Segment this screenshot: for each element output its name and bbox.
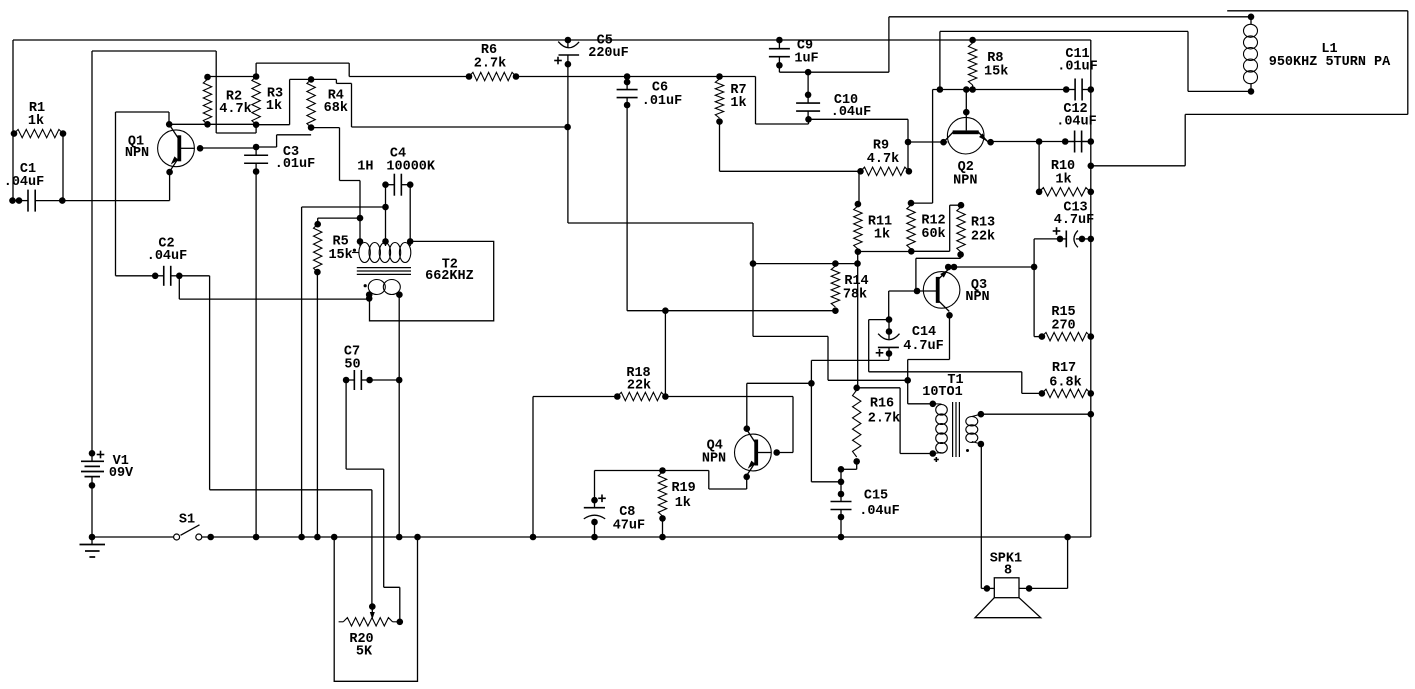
capacitor C15: [838, 491, 845, 498]
wire C6 bottom long drop to y=310.7 R14 feeder: [626, 105, 628, 311]
wire left vertical x=13 to C1/R1 left node: [12, 40, 14, 201]
wire C2 left from x=115.5 column: [116, 275, 156, 277]
wire x=115.5 Q1 collector feed / down to C2: [115, 112, 117, 276]
resistor R11: [855, 201, 862, 208]
transistor Q1 NPN: [158, 130, 195, 167]
wire R13 bottom jog down-left-down to Q3 base: [960, 255, 962, 259]
capacitor C5 electrolytic: [565, 37, 572, 44]
resistor R1: [14, 129, 63, 137]
wire R6 right to C6/R7 top rail y=76.5: [516, 76, 720, 78]
wire ground rail main y=537: [202, 536, 1091, 538]
svg-text:60k: 60k: [921, 227, 945, 242]
resistor R14: [832, 260, 839, 267]
svg-text:4.7uF: 4.7uF: [903, 339, 944, 354]
svg-text:78k: 78k: [843, 288, 867, 303]
wire R18 right to Q4 base jog: [665, 396, 793, 398]
resistor R13: [958, 202, 965, 209]
resistor R12: [908, 200, 915, 207]
resistor R18: [617, 392, 665, 400]
transistor Q2 NPN: [947, 117, 984, 154]
resistor R7: [716, 73, 723, 80]
svg-text:1k: 1k: [1055, 173, 1071, 188]
svg-text:10TO1: 10TO1: [922, 385, 963, 400]
wire riser x=939.9 up to y=31.4 L1 bottom feed: [939, 31, 941, 89]
wire speaker right up to ground rail: [1019, 587, 1068, 589]
svg-text:NPN: NPN: [965, 290, 989, 305]
wire R9 left down to R11 top: [858, 171, 860, 204]
transformer T1 primary coil: [930, 401, 937, 408]
wire R3 bottom step up to R4 top: [256, 124, 290, 126]
svg-text:4.7k: 4.7k: [219, 102, 251, 117]
wire R15 left jog up to C13 column: [1034, 336, 1042, 338]
wire Q1 emitter down to C1/R1 node: [169, 172, 171, 201]
svg-text:1k: 1k: [730, 96, 746, 111]
svg-text:.01uF: .01uF: [275, 157, 316, 172]
wire branch x=665 down to R18 right: [664, 311, 666, 397]
battery V1: [91, 452, 93, 461]
capacitor C14 electrolytic: [886, 316, 893, 323]
wire R2 top to R3 top y=76.5: [208, 76, 257, 78]
svg-text:C15: C15: [864, 489, 888, 504]
wire R16 top right jog down to T1 primary bottom: [857, 387, 900, 389]
wire R4 bottom step down to T2 primary left: [311, 127, 339, 129]
svg-text:R16: R16: [870, 397, 894, 412]
wire T1 secondary top to right bus: [981, 413, 1091, 415]
wire R12 top jog up riser: [911, 202, 933, 204]
wire Q4 emitter jog to R19 top: [746, 477, 748, 489]
capacitor C9: [776, 37, 783, 44]
wire C4 left down to T2 primary center tap: [385, 185, 387, 242]
wire Q3 collector down-jog-left to x=908 column: [949, 315, 951, 359]
transistor Q4 NPN: [735, 434, 772, 471]
wire T2 feedback box primary-right to secondary-left: [370, 241, 494, 320]
capacitor C13 electrolytic: [1057, 236, 1064, 243]
resistor R17: [1042, 389, 1091, 397]
wire ground rail left to switch: [92, 536, 174, 538]
wire C3 bottom to ground rail: [255, 172, 257, 538]
wire T2 secondary right down to ground: [398, 295, 400, 537]
wire C14 top jog left-down to R17 feeder y=371.8: [869, 319, 889, 321]
wire R10 left up to Q2 emitter row: [1038, 142, 1040, 192]
wire wiper feed y=489.8 to R20 wiper: [210, 489, 372, 491]
wire C2 right to x=209.6 down to volume wiper feed: [179, 275, 209, 277]
svg-text:.04uF: .04uF: [859, 504, 900, 519]
potentiometer R20: [339, 621, 344, 623]
svg-text:662KHZ: 662KHZ: [425, 269, 474, 284]
svg-text:S1: S1: [179, 512, 195, 527]
svg-text:.01uF: .01uF: [1057, 60, 1098, 75]
wire x=216 from y=51 down and right to R3 bottom: [215, 51, 217, 133]
wire R7 top jog to C10 bottom: [720, 76, 756, 78]
wire R5 top jog to T2 primary-left column: [317, 218, 319, 224]
svg-text:1uF: 1uF: [794, 52, 818, 67]
svg-text:C14: C14: [912, 325, 936, 340]
transformer T2 primary coil: [359, 243, 370, 263]
wire V+ branch x=92: corner (92,51) down to battery V1 plus: [92, 50, 216, 52]
wire C15 column: [840, 469, 842, 494]
svg-text:.04uF: .04uF: [831, 105, 872, 120]
transformer T1 secondary coil: [978, 411, 985, 418]
wire Q1 collector row y=124.2 to R2/R3 bottoms: [169, 123, 256, 125]
wire y=16.8 rail to L1 top: [889, 16, 1251, 18]
svg-text:5K: 5K: [356, 645, 373, 660]
resistor R9: [861, 167, 909, 175]
T2 phase mark secondary: [364, 284, 367, 287]
wire distribution y=263.6 to R14 top and R11 bottom column: [753, 263, 858, 265]
capacitor C2: [163, 266, 165, 286]
svg-text:2.7k: 2.7k: [868, 412, 900, 427]
Q3 base wire from C14 column: [889, 290, 938, 292]
svg-text:.04uF: .04uF: [147, 249, 188, 264]
wire x=907.7 column from Q3 jog down to T1 primary top: [907, 360, 909, 404]
switch S1: [174, 534, 180, 540]
wire R20 ground loop box: [334, 537, 417, 681]
capacitor C12: [1074, 131, 1076, 153]
svg-text:4.7uF: 4.7uF: [1054, 213, 1095, 228]
wire Q3 emitter row y=267 to C13/R15 column: [954, 266, 1034, 268]
svg-text:1H: 1H: [357, 160, 373, 175]
wire Q1 base to C3 top: [200, 147, 256, 149]
wire Q3 base branch down to C14 top: [888, 291, 890, 320]
wire distribution x=753 corner to y=336 then to x=828 down to Q3/T1 node: [753, 335, 828, 337]
svg-text:22k: 22k: [971, 230, 995, 245]
inductor L1: [1248, 13, 1255, 20]
wire bus out to L1 return loop: [1091, 165, 1185, 167]
svg-text:4.7k: 4.7k: [867, 152, 899, 167]
wire +V top rail y=40 from antenna corner to right bus: [13, 39, 1091, 41]
resistor R5: [314, 224, 322, 272]
resistor R8: [969, 37, 976, 44]
wire C3 top step up to R4 bottom: [256, 146, 277, 148]
svg-text:NPN: NPN: [953, 174, 977, 189]
wire C7 left down jog to R20 right: [345, 380, 347, 469]
svg-text:47uF: 47uF: [613, 519, 645, 534]
wire C5 bottom lead down to y=127 and y=223 distribution: [567, 64, 569, 223]
svg-text:R17: R17: [1052, 361, 1076, 376]
svg-text:1k: 1k: [874, 228, 890, 243]
svg-text:15k: 15k: [328, 248, 352, 263]
wire R1 right lead down to C1 node: [62, 134, 64, 201]
svg-text:8: 8: [1004, 564, 1012, 579]
capacitor C3: [244, 154, 268, 156]
capacitor C6: [624, 73, 631, 80]
wire C2 right down to T2 secondary row y=299.1: [178, 276, 180, 299]
wire V1 minus to ground node: [91, 485, 93, 537]
wire Q2 collector rail y=89.5 from R12 riser to C11: [933, 89, 1067, 91]
capacitor C10: [805, 69, 812, 76]
wire C14 bottom lead left to y=360 stub to x=811 column: [888, 354, 890, 361]
svg-text:270: 270: [1051, 319, 1075, 334]
svg-text:1k: 1k: [266, 99, 282, 114]
wire R9 row y=171.3 from R7 column: [720, 170, 861, 172]
resistor R2: [203, 79, 211, 124]
wire riser x=932.6 down to R12 top: [932, 90, 934, 204]
wire C13 left down to Q3 emitter junction and R15: [1034, 238, 1060, 240]
wire R12 bottom right to R13 drop: [911, 250, 949, 252]
capacitor C8 electrolytic: [591, 497, 598, 504]
svg-text:R13: R13: [971, 216, 995, 231]
resistor R6: [469, 72, 516, 80]
svg-text:950KHZ 5TURN PA: 950KHZ 5TURN PA: [1269, 55, 1391, 70]
svg-text:220uF: 220uF: [588, 46, 629, 61]
wire Q4 collector up to y=383.3 junction: [746, 383, 748, 428]
wire R4 top step down right to y=127 rail toward C5: [311, 78, 336, 80]
svg-text:1k: 1k: [675, 496, 691, 511]
transformer T2 core: [357, 267, 411, 269]
transistor Q3 NPN: [923, 272, 960, 309]
wire R16 bottom jog to C15 column: [856, 461, 858, 469]
ground rail junction dots: [253, 534, 260, 541]
wire C1 node to Q1 emitter column y=200.6: [62, 200, 169, 202]
svg-text:6.8k: 6.8k: [1049, 376, 1081, 391]
resistor R19: [659, 467, 666, 474]
svg-text:22k: 22k: [627, 379, 651, 394]
T1 phase marks: [934, 459, 939, 461]
svg-text:.04uF: .04uF: [4, 175, 45, 190]
wire R11-R12 bottoms row y=251.3: [858, 251, 911, 253]
ground symbol: [89, 534, 96, 541]
capacitor C1: [27, 190, 29, 212]
wire R13 top jog left and down to R12 bottom row: [950, 204, 961, 206]
wire R5 bottom to ground rail: [316, 272, 318, 537]
svg-text:50: 50: [344, 358, 360, 373]
svg-text:NPN: NPN: [702, 452, 726, 467]
svg-text:R19: R19: [671, 481, 695, 496]
resistor R4: [307, 79, 315, 127]
wire x=811.4 column up to C14 stub and down to C15 column: [810, 360, 812, 383]
wire ground spur from C4 node x=301.6: [302, 206, 386, 208]
wire Q2 emitter row y=141.5 to C12: [991, 141, 1091, 143]
wire R11 bottom to y=263.6 and down to R16 top: [857, 252, 859, 388]
svg-text:.01uF: .01uF: [642, 94, 683, 109]
resistor R10: [1039, 188, 1090, 196]
wire Q2 base from x=908 junction: [908, 141, 947, 143]
wire C4 right down to T2 primary right: [409, 185, 411, 242]
svg-text:2.7k: 2.7k: [474, 57, 506, 72]
T1 core: [952, 402, 954, 457]
svg-text:15k: 15k: [984, 65, 1008, 80]
svg-text:NPN: NPN: [125, 146, 149, 161]
Q3 diagonals emitter-up arrow: [939, 270, 949, 279]
svg-text:68k: 68k: [324, 101, 348, 116]
T2 phase dot primary: [353, 249, 356, 252]
svg-text:1k: 1k: [28, 114, 44, 129]
resistor R3: [252, 77, 260, 125]
right bus vertical x=1090.8: [1090, 40, 1092, 537]
wire C10 bottom right to x=908 down to Q2 base junction: [809, 118, 909, 120]
wire R19 top to C8 top: [595, 470, 663, 472]
speaker SPK1: [984, 585, 991, 592]
wire R7 bottom down to R9 row: [719, 122, 721, 172]
Q2 diagonals: [944, 132, 954, 142]
resistor R15: [1042, 332, 1091, 340]
capacitor C11: [1074, 79, 1076, 101]
wire T1 secondary bottom down to speaker left: [980, 444, 982, 588]
capacitor C4: [393, 174, 395, 196]
svg-text:10000K: 10000K: [386, 160, 436, 175]
transformer T2 secondary coil: [368, 280, 385, 295]
capacitor C7: [353, 370, 355, 390]
wire R18 left to ground drop x=533: [533, 396, 617, 398]
svg-text:09V: 09V: [109, 466, 134, 481]
resistor R16: [853, 385, 860, 392]
wire R3 top up-right to R6 feeder y=63/77: [255, 63, 257, 76]
wire C7 right to T2-sec ground column: [370, 379, 400, 381]
wire C9 bottom to y=72.2 over to x=888.9 up to L1 top rail: [778, 65, 780, 72]
